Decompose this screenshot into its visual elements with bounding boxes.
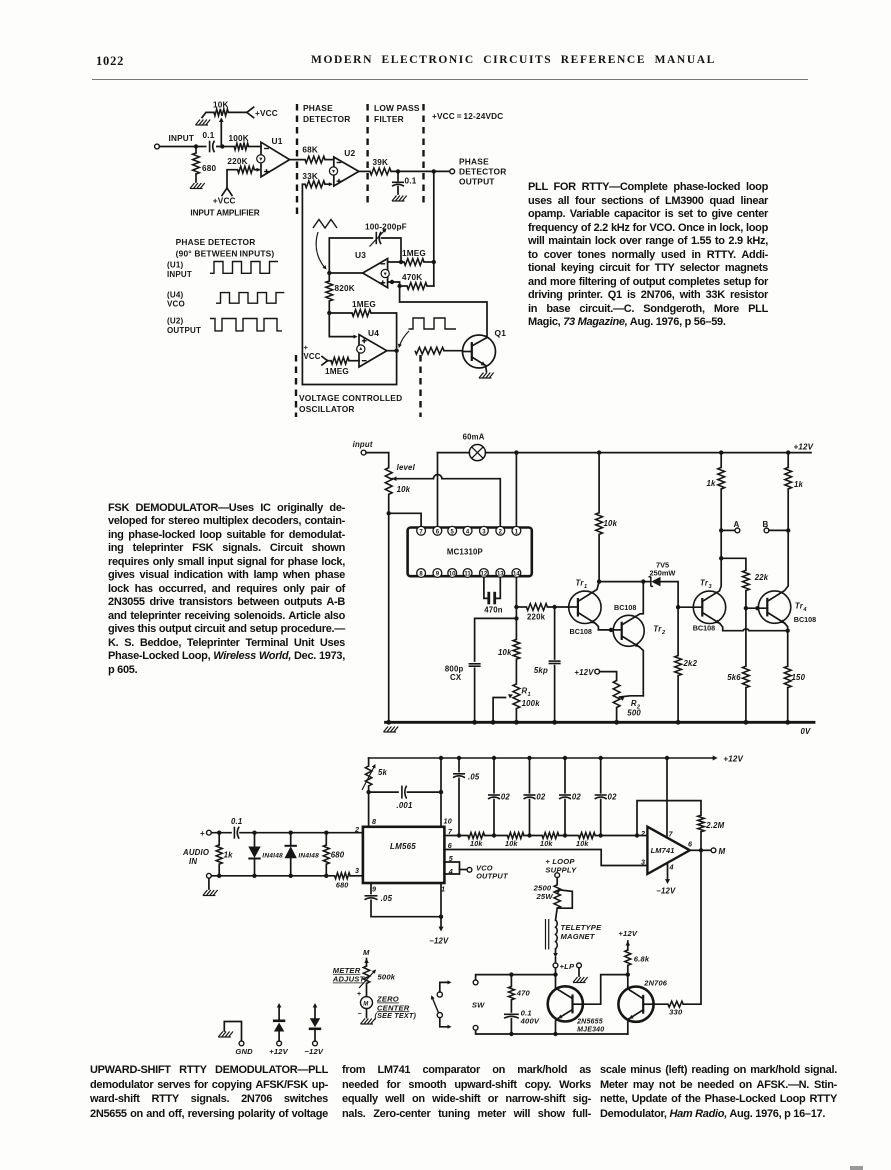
wire U2 output [359, 170, 370, 172]
svg-text:Tr: Tr [576, 579, 585, 588]
zener diode 7V5 250mW [643, 581, 650, 583]
page title [311, 54, 716, 66]
svg-text:LM565: LM565 [390, 842, 416, 851]
svg-text:220k: 220k [527, 613, 546, 622]
node 22k branch [719, 556, 723, 560]
svg-text:25W: 25W [536, 892, 554, 901]
waveform U2 output [210, 319, 282, 331]
op-amp U3 (points left) [363, 259, 388, 288]
switch SW [437, 992, 442, 997]
svg-text:A: A [734, 520, 740, 529]
node audio junctions top [217, 831, 221, 835]
current-source symbol U4 [357, 345, 365, 353]
svg-text:U2: U2 [344, 148, 355, 158]
svg-text:2: 2 [640, 829, 645, 838]
capacitor 0.1 (input coupling) [207, 141, 217, 153]
svg-text:10k: 10k [397, 485, 411, 494]
svg-text:220K: 220K [227, 157, 247, 166]
wire 10K right to +VCC [228, 111, 247, 113]
node Tr1 base / 5kp [552, 605, 556, 609]
resistor 1k (left) [719, 450, 723, 454]
svg-text:+VCC = 12-24VDC: +VCC = 12-24VDC [432, 112, 503, 121]
rheostat 2500 25W [556, 878, 558, 885]
node LM741 pin2 feedback [635, 833, 639, 837]
svg-text:INPUT: INPUT [167, 270, 192, 279]
svg-text:1: 1 [528, 692, 531, 698]
svg-text:1k: 1k [707, 479, 717, 488]
svg-text:GND: GND [235, 1047, 253, 1056]
svg-text:U1: U1 [272, 136, 283, 146]
svg-text:820K: 820K [335, 284, 355, 293]
svg-text:150: 150 [792, 673, 806, 682]
svg-text:.02: .02 [605, 793, 617, 802]
svg-text:+12V: +12V [723, 755, 743, 764]
svg-text:1: 1 [584, 584, 587, 590]
square wave symbol (VCO) [409, 318, 457, 329]
svg-text:470n: 470n [484, 606, 503, 615]
svg-text:AUDIO: AUDIO [182, 848, 209, 857]
terminal switch bottom [473, 1025, 478, 1030]
svg-text:+VCC: +VCC [213, 197, 236, 206]
svg-text:.02: .02 [499, 793, 511, 802]
transistor 2N5655/MJE340 [548, 986, 583, 1021]
svg-text:6: 6 [688, 840, 693, 849]
svg-text:10k: 10k [604, 519, 618, 528]
wire U3 output to node [329, 272, 362, 274]
node .001 right [439, 790, 443, 794]
resistor 33K [305, 181, 325, 188]
terminal input (FSK) [361, 450, 366, 455]
resistor 22k [721, 558, 746, 570]
wire VCO cap top [329, 238, 372, 273]
svg-text:10k: 10k [470, 839, 483, 848]
svg-text:BC108: BC108 [570, 627, 592, 636]
arrow squarewave to U4 output [400, 331, 410, 346]
svg-text:10k: 10k [498, 648, 512, 657]
svg-text:BC108: BC108 [693, 624, 715, 633]
pin 7 MC1310P [417, 526, 426, 535]
audio top wire [211, 832, 231, 834]
svg-text:U4: U4 [368, 328, 379, 338]
svg-text:ADJUST: ADJUST [332, 975, 366, 984]
ground (Q1) [479, 373, 484, 379]
resistor 330 [668, 1001, 683, 1007]
+12V rail (top) [486, 452, 812, 454]
resistor 1MEG (U4 bias) [331, 357, 349, 364]
svg-text:+: + [304, 343, 309, 352]
potentiometer 5k [368, 758, 370, 766]
svg-text:68K: 68K [302, 146, 318, 155]
node +LP top wire [553, 972, 557, 976]
capacitor 470n (pins 12-13) [484, 577, 487, 598]
svg-text:(U4): (U4) [167, 291, 183, 300]
wire Q1 emitter to ground [486, 366, 487, 372]
svg-text:DETECTOR: DETECTOR [303, 114, 351, 124]
svg-text:6.8k: 6.8k [634, 955, 650, 964]
resistor 2k2 [677, 607, 679, 655]
svg-text:33K: 33K [302, 172, 318, 181]
svg-text:680: 680 [331, 851, 345, 860]
svg-text:10k: 10k [505, 839, 518, 848]
svg-text:680: 680 [336, 881, 349, 890]
svg-text:1k: 1k [794, 480, 804, 489]
wire Tr1 collector to zener [599, 581, 643, 583]
ground (+LP) [573, 977, 578, 983]
svg-text:11: 11 [464, 572, 471, 578]
node 820K bottom [327, 311, 331, 315]
wire cap to 1MEG node [382, 238, 402, 262]
resistor 680 (series) [335, 873, 351, 879]
node rail pin1 [514, 450, 518, 454]
waveform U1 input [210, 262, 278, 274]
svg-text:IN4I48: IN4I48 [262, 853, 283, 860]
terminal A [721, 529, 735, 531]
svg-text:2k2: 2k2 [683, 659, 698, 668]
svg-text:input: input [353, 440, 373, 449]
pin 8 MC1310P [417, 569, 426, 578]
svg-text:U3: U3 [355, 250, 366, 260]
svg-text:10: 10 [444, 817, 452, 826]
diode IN4148 (down) [254, 833, 256, 847]
svg-text:(SEE TEXT): (SEE TEXT) [375, 1011, 417, 1020]
svg-text:680: 680 [202, 164, 217, 173]
capacitor 0.1 (audio) [233, 827, 235, 839]
sawtooth symbol [313, 220, 337, 229]
svg-text:.05: .05 [381, 894, 393, 903]
svg-text:OUTPUT: OUTPUT [476, 872, 509, 881]
transistor Tr3 [693, 591, 725, 623]
IC MC1310P [408, 528, 532, 577]
paragraph: UPWARD-SHIFT col 3 [600, 1063, 837, 1121]
resistor 470 [510, 975, 512, 987]
svg-text:IN: IN [189, 857, 197, 866]
resistor 2.2M [698, 815, 704, 831]
svg-text:−: − [358, 1011, 362, 1018]
node 220k branch [514, 605, 518, 609]
svg-text:3: 3 [355, 866, 359, 875]
svg-text:+: + [200, 829, 205, 838]
svg-text:60mA: 60mA [463, 433, 485, 442]
wire rail to pin 10 [439, 756, 443, 760]
svg-text:4: 4 [802, 607, 807, 613]
node Tr4 base [744, 606, 748, 610]
svg-text:2: 2 [661, 630, 666, 636]
resistor 220K [238, 166, 255, 173]
svg-text:+12V: +12V [574, 668, 594, 677]
wire collector link to 2N5655 base [583, 975, 628, 1005]
paragraph: UPWARD-SHIFT col 1 [90, 1063, 328, 1121]
svg-text:ZERO: ZERO [376, 995, 399, 1004]
ground (meter) [366, 1009, 368, 1018]
svg-text:−12V: −12V [304, 1047, 323, 1056]
wire input to node [159, 146, 222, 148]
pin 12 MC1310P [480, 569, 489, 578]
svg-text:39K: 39K [373, 158, 389, 167]
IC LM565 [363, 827, 445, 883]
wire wiper to pin 2 [442, 479, 500, 527]
pin 10 MC1310P [448, 569, 457, 578]
svg-text:100K: 100K [229, 134, 249, 143]
potentiometer 10K [214, 109, 228, 116]
node Tr1 collector [597, 579, 601, 583]
svg-text:M: M [363, 948, 370, 957]
bottom wire (switch to transistors) [476, 1030, 628, 1034]
svg-text:+12V: +12V [618, 929, 637, 938]
capacitor 5kp [554, 607, 556, 659]
wire to 800p [475, 618, 517, 661]
svg-text:+: + [357, 991, 361, 998]
svg-text:+12V: +12V [269, 1047, 288, 1056]
pin 13 MC1310P [496, 569, 505, 578]
wire U4 plus input [329, 313, 355, 337]
svg-text:Tr: Tr [795, 602, 804, 611]
legend diode -12V [313, 1041, 318, 1046]
meter M (zero center) [366, 983, 368, 996]
wire lamp left to pin 6 [437, 453, 439, 527]
transistor Tr4 [758, 591, 790, 623]
node 470 top [509, 972, 513, 976]
svg-text:10k: 10k [540, 839, 553, 848]
corner scan mark [850, 1166, 863, 1170]
dashed divider right [422, 104, 424, 206]
pin 14 MC1310P [512, 569, 521, 578]
node 1MEG left [399, 260, 403, 264]
pin 6 MC1310P [433, 526, 442, 535]
svg-text:VCO: VCO [167, 300, 185, 309]
resistor 680 (shunt) [325, 833, 327, 845]
node pin14/800p branch [514, 616, 518, 620]
wire output down to 330 [683, 850, 701, 1004]
svg-text:9: 9 [372, 884, 376, 893]
svg-text:3: 3 [709, 584, 713, 590]
node Tr4 emitter [786, 629, 790, 633]
dashed divider right lower [419, 355, 421, 417]
terminal M output [701, 849, 711, 851]
resistor 220k [526, 604, 547, 611]
node .001 left [366, 790, 370, 794]
svg-text:470: 470 [516, 989, 531, 998]
teletype magnet coil [556, 908, 558, 920]
svg-text:100-200pF: 100-200pF [365, 223, 407, 232]
svg-text:7: 7 [669, 830, 674, 839]
legend diode +12V [277, 1041, 282, 1046]
capacitor 0.1 (filter) [397, 171, 399, 180]
paragraph: PLL FOR RTTY description [528, 181, 768, 330]
pin 3 MC1310P [480, 526, 489, 535]
svg-text:4: 4 [669, 863, 674, 872]
svg-text:0V: 0V [801, 727, 812, 736]
svg-text:0.1: 0.1 [203, 131, 215, 140]
transistor Tr1 [569, 591, 601, 623]
svg-text:10K: 10K [213, 101, 229, 110]
transistor Tr2 [613, 615, 644, 646]
potentiometer level 10k [385, 468, 392, 495]
svg-text:470K: 470K [402, 273, 422, 282]
dashed divider left (phase detector) [296, 104, 298, 219]
wire 5k6 top [745, 608, 747, 666]
svg-text:MJE340: MJE340 [577, 1027, 604, 1034]
transistor Q1 [463, 335, 496, 368]
ground (0V rail) [384, 727, 389, 733]
wire input to level pot [366, 453, 389, 468]
wiper arrow level pot [392, 476, 397, 481]
node terminal A branch [719, 528, 723, 532]
svg-text:OUTPUT: OUTPUT [167, 326, 201, 335]
capacitor .001 [369, 791, 398, 793]
svg-text:SW: SW [472, 1000, 485, 1009]
header rule [92, 79, 808, 80]
terminal +LP [553, 963, 558, 968]
svg-text:M: M [363, 1001, 369, 1007]
svg-text:1k: 1k [224, 851, 234, 860]
terminal loop supply [555, 873, 560, 878]
svg-text:M: M [719, 847, 726, 856]
svg-text:MC1310P: MC1310P [447, 548, 483, 557]
node 470K left [397, 284, 401, 288]
svg-text:level: level [397, 463, 416, 472]
ground (audio) [208, 878, 210, 889]
+VCC connector (10K) [247, 107, 254, 112]
svg-text:IN4I48: IN4I48 [298, 853, 319, 860]
node 39K/0.1 junction [396, 169, 400, 173]
feedback wire to 2.2M [637, 801, 701, 836]
capacitor 0.1 400V [504, 1013, 519, 1015]
pin 4 MC1310P [463, 526, 472, 535]
svg-text:10: 10 [449, 572, 456, 578]
0V rail [386, 721, 815, 724]
svg-text:5k6: 5k6 [727, 673, 741, 682]
node Tr2 base [609, 628, 613, 632]
svg-text:0.1: 0.1 [231, 817, 242, 826]
ground (10K) [196, 120, 201, 126]
resistor 5k6 [743, 666, 750, 687]
arrow sawtooth to U3 node [316, 232, 325, 268]
resistor 1k (audio) [218, 833, 220, 845]
pin 9 MC1310P [433, 569, 442, 578]
node Tr2 collector riser [641, 579, 645, 583]
current-source symbol U1 [257, 155, 265, 163]
svg-text:.02: .02 [570, 793, 582, 802]
capacitor 100-200pF variable [375, 232, 377, 244]
svg-text:.001: .001 [397, 801, 413, 810]
svg-text:.02: .02 [534, 793, 546, 802]
svg-text:2.2M: 2.2M [705, 821, 724, 830]
svg-text:VOLTAGE CONTROLLED: VOLTAGE CONTROLLED [299, 393, 402, 403]
ground (filter cap) [392, 196, 397, 202]
wire 220K to +VCC [227, 170, 238, 188]
svg-text:−12V: −12V [656, 887, 676, 896]
svg-text:PHASE: PHASE [303, 103, 333, 113]
svg-text:10k: 10k [576, 839, 589, 848]
top wire to switch [476, 975, 556, 980]
svg-text:INPUT: INPUT [169, 134, 195, 143]
svg-text:Q1: Q1 [495, 328, 507, 338]
svg-text:LM741: LM741 [651, 846, 675, 855]
node 1MEG right [432, 260, 436, 264]
svg-text:(U1): (U1) [167, 261, 183, 270]
svg-text:500: 500 [627, 709, 641, 718]
node U3 output [327, 271, 331, 275]
resistor 1MEG (lower) [352, 310, 371, 317]
capacitors .02 x4 [492, 756, 496, 760]
svg-text:500k: 500k [378, 973, 396, 982]
svg-text:250mW: 250mW [650, 568, 676, 577]
svg-text:SUPPLY: SUPPLY [545, 866, 577, 875]
op-amp U1 [261, 142, 290, 177]
svg-text:1MEG: 1MEG [352, 300, 376, 309]
pin 11 MC1310P [463, 569, 472, 578]
dashed divider left lower [295, 355, 297, 417]
svg-text:MAGNET: MAGNET [561, 932, 596, 941]
node output junction [432, 169, 436, 173]
svg-text:OSCILLATOR: OSCILLATOR [299, 404, 355, 414]
lamp 60mA [438, 452, 470, 454]
svg-text:PHASE DETECTOR: PHASE DETECTOR [176, 237, 256, 247]
wire to output terminal [434, 170, 450, 172]
resistor 1MEG (U3 feedback) [404, 259, 424, 266]
transistor 2N706 [618, 987, 653, 1022]
wire 10K left to ground [202, 112, 214, 117]
svg-text:2N706: 2N706 [643, 978, 667, 987]
resistor 1k (right) [786, 450, 790, 454]
svg-text:TELETYPE: TELETYPE [561, 923, 603, 932]
resistor 150 [787, 631, 789, 667]
svg-text:0.1: 0.1 [405, 177, 417, 186]
terminal PHASE DETECTOR OUTPUT [450, 169, 455, 174]
wire 5k to pin 8 [368, 792, 370, 827]
svg-text:INPUT AMPLIFIER: INPUT AMPLIFIER [190, 209, 259, 218]
resistor 10k (Tr1 collector) [597, 450, 601, 454]
svg-text:BC108: BC108 [794, 615, 816, 624]
node 0.1/10K junction [220, 144, 224, 148]
wire rail to pin 1 [515, 453, 517, 527]
svg-text:2N5655: 2N5655 [576, 1019, 603, 1026]
svg-text:Tr: Tr [653, 625, 662, 634]
svg-text:5kp: 5kp [534, 666, 548, 675]
svg-text:−12V: −12V [429, 937, 449, 946]
svg-text:Tr: Tr [700, 579, 709, 588]
wire coil to +LP terminal [555, 949, 557, 954]
svg-text:OUTPUT: OUTPUT [459, 177, 495, 187]
dashed divider middle [366, 104, 368, 206]
svg-text:1MEG: 1MEG [325, 367, 349, 376]
svg-text:FILTER: FILTER [374, 114, 404, 124]
potentiometer R1 100k [515, 659, 517, 684]
pin 2 MC1310P [496, 526, 505, 535]
svg-text:BC108: BC108 [614, 603, 636, 612]
svg-text:100k: 100k [522, 699, 541, 708]
node 0.1 bottom [509, 1032, 513, 1036]
audio bottom wire [211, 875, 334, 877]
wire LM741 pin4 to -12V [667, 863, 669, 879]
terminal B [764, 528, 769, 533]
resistor 68K [305, 156, 325, 163]
svg-text:1MEG: 1MEG [402, 249, 426, 258]
ground (680) [190, 183, 195, 189]
+12V rail (bottom circuit) [369, 757, 714, 759]
pin 5 MC1310P [448, 526, 457, 535]
wire pot bottom to 0V [388, 494, 390, 722]
terminal audio - [207, 873, 212, 878]
resistor 100K [222, 146, 234, 148]
resistor 6.8k (+12V) [627, 965, 629, 974]
potentiometer R2 500 [600, 672, 617, 681]
svg-text:VCC: VCC [304, 352, 321, 361]
paragraph: FSK DEMODULATOR description [108, 502, 345, 678]
svg-text:PHASE: PHASE [459, 157, 489, 167]
svg-text:+12V: +12V [794, 443, 814, 452]
op-amp U2 [334, 157, 359, 186]
